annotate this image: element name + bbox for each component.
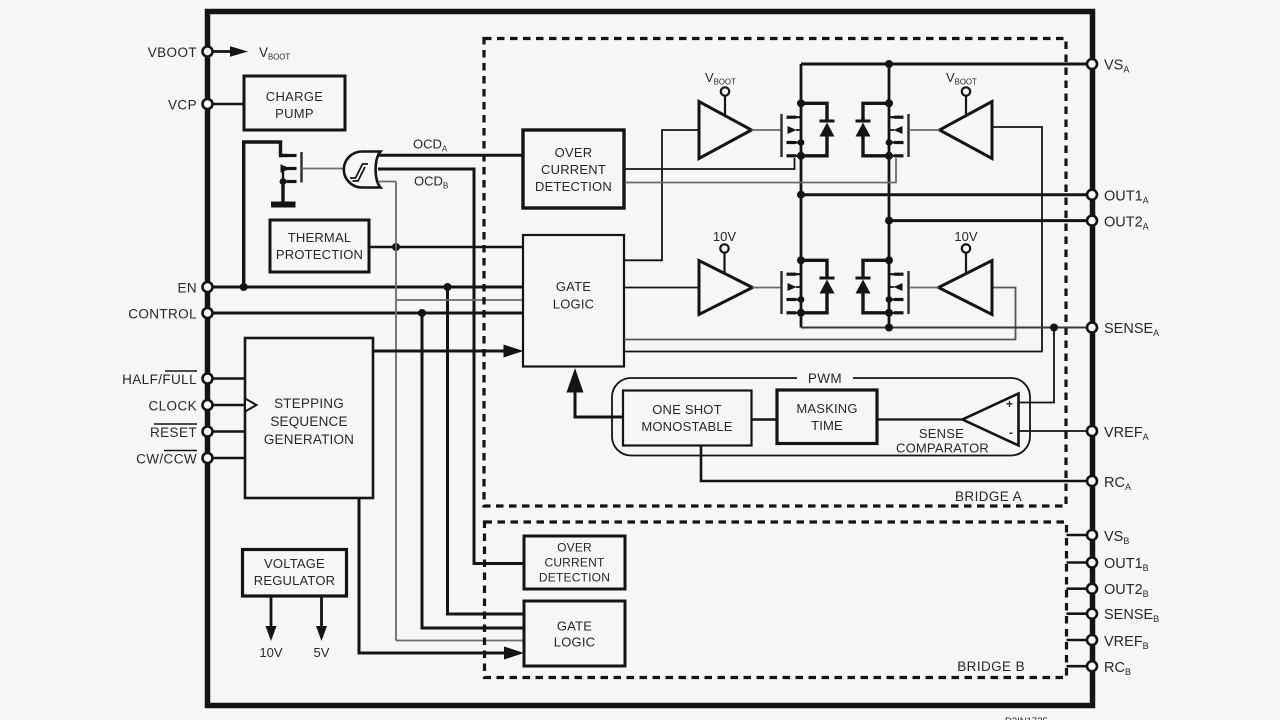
svg-text:CW/CCW: CW/CCW [136,452,197,467]
pin RCB [1087,660,1131,677]
svg-text:D2IN1725: D2IN1725 [1005,716,1048,720]
wire 10V output arrow [259,596,282,660]
wire VREFB stub [1067,639,1087,642]
svg-text:OVER: OVER [557,541,592,555]
pin CW/CCW [136,451,245,467]
svg-text:OUT2B: OUT2B [1104,582,1149,599]
bridge A dashed boundary [484,39,1066,507]
wire VSB stub [1067,534,1087,537]
svg-text:10V: 10V [713,229,736,244]
masking time U11 [777,390,877,444]
svg-text:VREFA: VREFA [1104,425,1149,442]
wire OCDA [377,137,523,156]
pin OUT1B [1087,556,1149,573]
transistor M2 [889,114,909,157]
svg-text:LOGIC: LOGIC [554,635,595,650]
buffer B3 10V [699,229,753,315]
pin SENSEB [1087,607,1159,624]
pin VCP [168,98,212,113]
wire OUT1B stub [1067,561,1087,564]
wire OUT1A [801,193,1087,196]
svg-text:PUMP: PUMP [275,106,314,121]
svg-text:SEQUENCE: SEQUENCE [270,414,347,429]
svg-text:LOGIC: LOGIC [553,297,594,312]
svg-text:THERMAL: THERMAL [288,230,352,245]
buffer B2 VBOOT [940,70,993,159]
pin VREFA [1087,425,1149,442]
svg-text:BRIDGE B: BRIDGE B [957,659,1025,674]
pin RCA [1087,475,1131,492]
svg-text:REGULATOR: REGULATOR [254,573,336,588]
svg-text:RESET: RESET [150,425,197,440]
svg-text:PROTECTION: PROTECTION [276,247,363,262]
svg-text:GATE: GATE [557,619,592,634]
svg-text:GATE: GATE [556,279,591,294]
wire 5V output arrow [314,596,330,660]
svg-text:MASKING: MASKING [796,401,857,416]
wire RCA [701,446,1087,482]
svg-text:PWM: PWM [808,371,842,386]
outer device border [208,12,1093,706]
svg-text:VREFB: VREFB [1104,634,1149,651]
svg-text:VCP: VCP [168,98,197,113]
svg-text:DETECTION: DETECTION [535,179,612,194]
wire stepping to gate logic B [359,498,524,660]
buffer B1 VBOOT [699,70,752,159]
svg-text:OUT2A: OUT2A [1104,215,1149,232]
transistor M1 [782,114,802,157]
diode D4 [856,260,890,313]
gate logic U13 (bridge B) [524,601,625,666]
svg-text:GENERATION: GENERATION [264,432,354,447]
wire Q1 gate to schmitt output [302,168,346,170]
wire VBOOT arrow [213,46,248,57]
wire thermal gray net [378,182,524,641]
svg-text:COMPARATOR: COMPARATOR [896,441,989,456]
transistor Q1 [280,152,302,185]
wire comparator output to masking time [877,418,963,420]
pin HALF/FULL [122,371,245,387]
wire half-bridge column 2 [885,64,893,328]
svg-text:OVER: OVER [555,145,593,160]
pin OUT1A [1087,189,1149,206]
pin SENSEA [1087,321,1159,338]
wire OUT2A [889,219,1087,222]
svg-text:SENSE: SENSE [919,426,964,441]
wire OUT2B stub [1067,587,1087,590]
wire EN to bridge B gate logic [448,287,525,614]
svg-text:TIME: TIME [811,418,843,433]
wire masking time to one shot [752,418,778,420]
svg-text:SENSEB: SENSEB [1104,607,1159,624]
wire B1 output [752,129,781,131]
pin VSB [1087,529,1129,546]
svg-text:STEPPING: STEPPING [274,396,344,411]
pin VBOOT [148,45,213,60]
PWM block boundary [612,371,1030,456]
thermal protection U5 [270,220,369,272]
wire comparator plus input [1019,328,1055,403]
wire one shot to gate logic A arrow [567,368,624,417]
schmitt OR gate U4 [344,152,381,188]
transistor M4 [889,271,909,314]
wire gate logic A to buffer B1 [624,130,699,260]
wire stepping to gate logic A [373,345,524,358]
svg-text:OUT1A: OUT1A [1104,189,1149,206]
one shot monostable U10 [623,391,752,446]
svg-text:5V: 5V [314,645,330,660]
svg-text:EN: EN [177,281,197,296]
over current detection U12 (bridge B) [524,536,625,589]
pin VREFB [1087,634,1149,651]
wire B4 output [910,287,939,289]
bridge B dashed boundary [485,522,1067,678]
svg-text:MONOSTABLE: MONOSTABLE [641,419,732,434]
wire half-bridge column 1 [797,64,805,328]
wire gate logic A to buffer B2 [624,127,1042,352]
wire B3 output [753,287,781,289]
wire gate logic A to buffer B3 [624,287,699,289]
pin RESET [150,424,245,440]
svg-text:VOLTAGE: VOLTAGE [264,556,325,571]
svg-text:-: - [1009,426,1013,440]
wire gate logic A to buffer B4 [624,288,1016,340]
wire RCB stub [1067,665,1087,668]
diode D3 [801,260,835,313]
op-amp U2 sense comparator [896,394,1019,456]
wire EN [213,283,523,291]
pin EN [177,281,212,296]
svg-text:DETECTION: DETECTION [539,571,610,585]
charge pump U3 [244,76,345,130]
wire OCD sense tap 2 [625,158,896,183]
voltage regulator U9 [243,550,347,597]
pin VSA [1087,58,1129,75]
gate logic U7 (bridge A) [523,235,624,367]
wire VCP to charge pump [213,103,244,106]
transistor M3 [782,271,802,314]
pin OUT2B [1087,582,1149,599]
svg-text:OUT1B: OUT1B [1104,556,1149,573]
svg-text:BRIDGE A: BRIDGE A [955,489,1022,504]
svg-text:VBOOT: VBOOT [148,45,197,60]
stepping sequence generation U8 [245,338,373,498]
wire OCD sense tap 1 [625,158,795,169]
wire SENSEB stub [1067,612,1087,615]
wire CONTROL [213,309,523,317]
svg-text:+: + [1006,397,1013,411]
ground [271,182,296,205]
wire B2 output [910,129,940,131]
MOSFET Q1 drain bracket from EN line [244,142,287,287]
wire SENSEA rail [801,324,1087,332]
buffer B4 10V [939,229,993,315]
pin OUT2A [1087,215,1149,232]
diode D1 [801,103,835,156]
svg-text:CURRENT: CURRENT [541,162,606,177]
svg-text:HALF/FULL: HALF/FULL [122,372,197,387]
svg-text:10V: 10V [954,229,977,244]
svg-text:10V: 10V [259,645,282,660]
pin CONTROL [128,307,212,322]
diode D2 [856,103,890,156]
svg-text:CLOCK: CLOCK [148,399,197,414]
wire CONTROL to bridge B gate logic [422,313,524,628]
svg-text:CHARGE: CHARGE [266,89,323,104]
pin CLOCK [148,399,245,414]
wire VREFA to comparator minus [1019,430,1088,432]
over current detection U6 (bridge A) [523,130,624,208]
svg-text:ONE SHOT: ONE SHOT [652,402,722,417]
wire thermal output [369,243,523,251]
svg-text:SENSEA: SENSEA [1104,321,1159,338]
wire VSA top rail [801,60,1087,68]
wire OCDB [378,169,524,564]
svg-text:CURRENT: CURRENT [544,556,605,570]
svg-text:CONTROL: CONTROL [128,307,197,322]
